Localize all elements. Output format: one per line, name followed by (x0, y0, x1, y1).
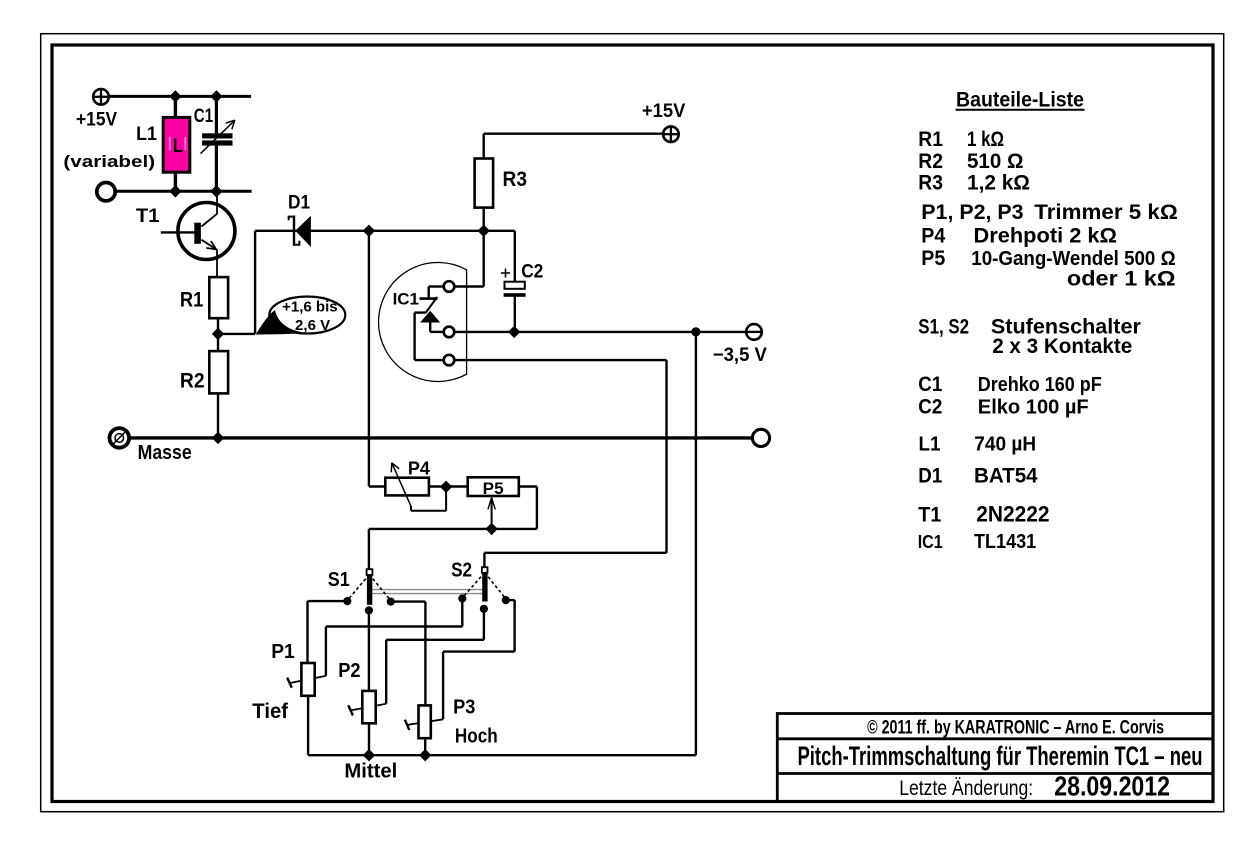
svg-text:TL1431: TL1431 (974, 531, 1036, 553)
svg-text:1 kΩ: 1 kΩ (967, 128, 1004, 151)
svg-text:1,2 kΩ: 1,2 kΩ (967, 172, 1030, 195)
svg-text:D1: D1 (918, 465, 942, 488)
svg-text:−3,5 V: −3,5 V (713, 345, 767, 366)
svg-text:T1: T1 (136, 206, 160, 227)
svg-text:S1, S2: S1, S2 (918, 316, 969, 339)
svg-text:C1: C1 (918, 373, 942, 396)
svg-text:P1, P2, P3: P1, P2, P3 (921, 201, 1023, 224)
svg-text:+15V: +15V (642, 101, 686, 122)
svg-text:C2: C2 (521, 261, 543, 282)
svg-text:P4: P4 (408, 458, 430, 478)
svg-text:S1: S1 (328, 569, 350, 591)
svg-text:Bauteile-Liste: Bauteile-Liste (956, 88, 1084, 112)
svg-text:P2: P2 (338, 660, 360, 682)
svg-text:Masse: Masse (138, 442, 192, 464)
svg-text:P1: P1 (271, 641, 295, 663)
svg-text:Pitch-Trimmschaltung für There: Pitch-Trimmschaltung für Theremin TC1 – … (798, 741, 1203, 771)
svg-text:T1: T1 (918, 504, 941, 527)
svg-text:Mittel: Mittel (344, 760, 397, 782)
svg-text:28.09.2012: 28.09.2012 (1054, 771, 1170, 802)
svg-text:2,6 V: 2,6 V (295, 317, 330, 334)
svg-text:L1: L1 (136, 124, 157, 145)
svg-text:R2: R2 (180, 370, 205, 393)
svg-text:R1: R1 (180, 288, 204, 311)
svg-text:Letzte Änderung:: Letzte Änderung: (899, 777, 1033, 800)
svg-text:Trimmer 5 kΩ: Trimmer 5 kΩ (1034, 201, 1178, 224)
svg-text:Drehko 160 pF: Drehko 160 pF (978, 374, 1102, 396)
svg-text:Tief: Tief (252, 700, 289, 723)
svg-text:P3: P3 (453, 697, 475, 719)
svg-text:C1: C1 (194, 106, 214, 127)
svg-text:740 µH: 740 µH (974, 434, 1036, 456)
svg-text:P5: P5 (483, 479, 504, 498)
svg-text:P5: P5 (921, 247, 945, 270)
svg-text:L1: L1 (919, 434, 941, 456)
svg-text:510 Ω: 510 Ω (967, 150, 1024, 173)
svg-text:oder 1 kΩ: oder 1 kΩ (1067, 268, 1176, 291)
svg-text:2 x 3 Kontakte: 2 x 3 Kontakte (992, 335, 1132, 358)
svg-text:IC1: IC1 (918, 532, 943, 552)
svg-text:+15V: +15V (76, 110, 117, 131)
svg-text:L: L (173, 136, 183, 157)
svg-text:P4: P4 (921, 225, 945, 248)
svg-text:BAT54: BAT54 (974, 465, 1038, 488)
svg-text:+1,6 bis: +1,6 bis (282, 299, 338, 316)
svg-text:R3: R3 (503, 168, 528, 191)
svg-text:Drehpoti 2 kΩ: Drehpoti 2 kΩ (974, 225, 1118, 248)
svg-text:R2: R2 (918, 150, 943, 173)
svg-text:(variabel): (variabel) (63, 152, 155, 171)
svg-text:IC1: IC1 (393, 291, 419, 309)
svg-text:© 2011 ff. by KARATRONIC – Ar: © 2011 ff. by KARATRONIC – Arno E. Corvi… (867, 717, 1164, 738)
svg-text:Hoch: Hoch (455, 726, 498, 748)
svg-text:Elko 100 µF: Elko 100 µF (978, 397, 1089, 419)
svg-text:R3: R3 (918, 172, 943, 195)
svg-text:S2: S2 (451, 560, 472, 582)
svg-text:2N2222: 2N2222 (976, 502, 1049, 527)
svg-text:D1: D1 (288, 193, 310, 214)
svg-text:C2: C2 (918, 396, 942, 419)
svg-text:R1: R1 (918, 128, 943, 151)
